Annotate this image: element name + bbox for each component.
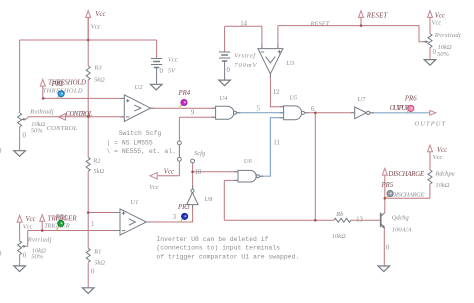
svg-text:5kΩ: 5kΩ (93, 168, 104, 175)
svg-text:0: 0 (386, 245, 390, 252)
svg-text:14: 14 (240, 20, 247, 27)
svg-text:Rvthiadj: Rvthiadj (29, 109, 53, 116)
svg-text:10kΩ: 10kΩ (332, 233, 346, 240)
svg-text:\ = NE555, et. al.: \ = NE555, et. al. (106, 148, 176, 155)
svg-text:R1: R1 (93, 249, 101, 256)
svg-text:Vcc: Vcc (95, 11, 105, 18)
svg-text:Rb: Rb (335, 211, 344, 218)
svg-text:11: 11 (273, 139, 280, 146)
svg-text:Vcc: Vcc (168, 56, 178, 63)
svg-text:RESET: RESET (366, 12, 389, 19)
svg-text:OUTPUT: OUTPUT (415, 120, 446, 127)
svg-text:Vcc: Vcc (91, 24, 101, 31)
svg-text:TRIGGER: TRIGGER (44, 222, 70, 229)
svg-text:U6: U6 (244, 158, 253, 165)
svg-text:Vcc: Vcc (149, 184, 159, 191)
svg-text:U1: U1 (130, 199, 138, 206)
svg-text:9: 9 (191, 110, 195, 117)
svg-text:PR3: PR3 (177, 204, 190, 211)
svg-text:Qdchg: Qdchg (392, 215, 410, 222)
svg-text:6: 6 (311, 106, 315, 113)
svg-text:50%: 50% (31, 254, 44, 261)
svg-text:10kΩ: 10kΩ (438, 44, 452, 51)
svg-text:0: 0 (23, 133, 27, 140)
svg-text:U8: U8 (204, 196, 213, 203)
svg-text:10: 10 (195, 169, 202, 176)
svg-text:5: 5 (257, 106, 261, 113)
svg-text:U2: U2 (135, 84, 144, 91)
svg-text:5V: 5V (168, 68, 176, 75)
svg-text:Vcc: Vcc (23, 224, 33, 231)
svg-text:100A/A: 100A/A (392, 227, 412, 234)
svg-text:0: 0 (23, 253, 27, 260)
svg-text:50%: 50% (31, 127, 44, 134)
svg-text:Vcc: Vcc (26, 216, 36, 223)
svg-text:Vcc: Vcc (164, 168, 174, 175)
svg-text:DISCHARGE: DISCHARGE (391, 192, 425, 199)
svg-text:CONTROL: CONTROL (66, 111, 93, 118)
svg-text:CONTROL: CONTROL (47, 125, 78, 132)
svg-text:U4: U4 (220, 95, 229, 102)
svg-text:Vcc: Vcc (433, 154, 443, 161)
svg-text:13: 13 (356, 217, 363, 224)
svg-text:Rvrstiadj: Rvrstiadj (434, 32, 461, 39)
svg-text:U5: U5 (289, 94, 298, 101)
svg-text:R3: R3 (93, 65, 102, 72)
svg-text:Vrstref: Vrstref (234, 52, 256, 59)
svg-text:R2: R2 (92, 158, 101, 165)
svg-text:Scfg: Scfg (194, 150, 206, 157)
svg-text:700mV: 700mV (234, 62, 257, 69)
svg-text:Rvtriadj: Rvtriadj (27, 236, 52, 243)
svg-text:12: 12 (273, 89, 280, 96)
svg-text:RESET: RESET (310, 21, 330, 28)
svg-text:| = NS LM555: | = NS LM555 (106, 140, 152, 147)
svg-text:0: 0 (160, 68, 164, 75)
svg-text:(connections to) input termina: (connections to) input terminals (156, 245, 280, 252)
svg-text:Inverter U8 can be deleted if: Inverter U8 can be deleted if (156, 236, 268, 243)
svg-text:U3: U3 (286, 60, 295, 67)
svg-text:1: 1 (91, 221, 94, 228)
svg-text:DISCHARGE: DISCHARGE (387, 171, 425, 178)
svg-text:PR2: PR2 (51, 81, 64, 88)
svg-text:5kΩ: 5kΩ (94, 259, 105, 266)
svg-text:Vcc: Vcc (432, 20, 442, 27)
svg-text:0: 0 (91, 269, 95, 276)
svg-text:0: 0 (227, 67, 231, 74)
svg-text:10kΩ: 10kΩ (435, 182, 449, 189)
svg-text:PR4: PR4 (178, 90, 191, 97)
svg-text:5kΩ: 5kΩ (94, 77, 105, 84)
svg-text:Rdchpu: Rdchpu (434, 170, 455, 177)
svg-text:OUTPUT: OUTPUT (390, 105, 410, 112)
svg-text:PR6: PR6 (404, 96, 417, 103)
svg-text:3: 3 (173, 214, 177, 221)
svg-text:Vcc: Vcc (435, 12, 445, 19)
svg-text:of trigger comparator U1 are s: of trigger comparator U1 are swapped. (156, 254, 299, 261)
svg-text:PR5: PR5 (381, 182, 394, 189)
svg-text:50%: 50% (437, 51, 450, 58)
svg-text:Switch Scfg: Switch Scfg (119, 130, 162, 137)
svg-text:U7: U7 (357, 96, 366, 103)
svg-text:0: 0 (433, 49, 437, 56)
